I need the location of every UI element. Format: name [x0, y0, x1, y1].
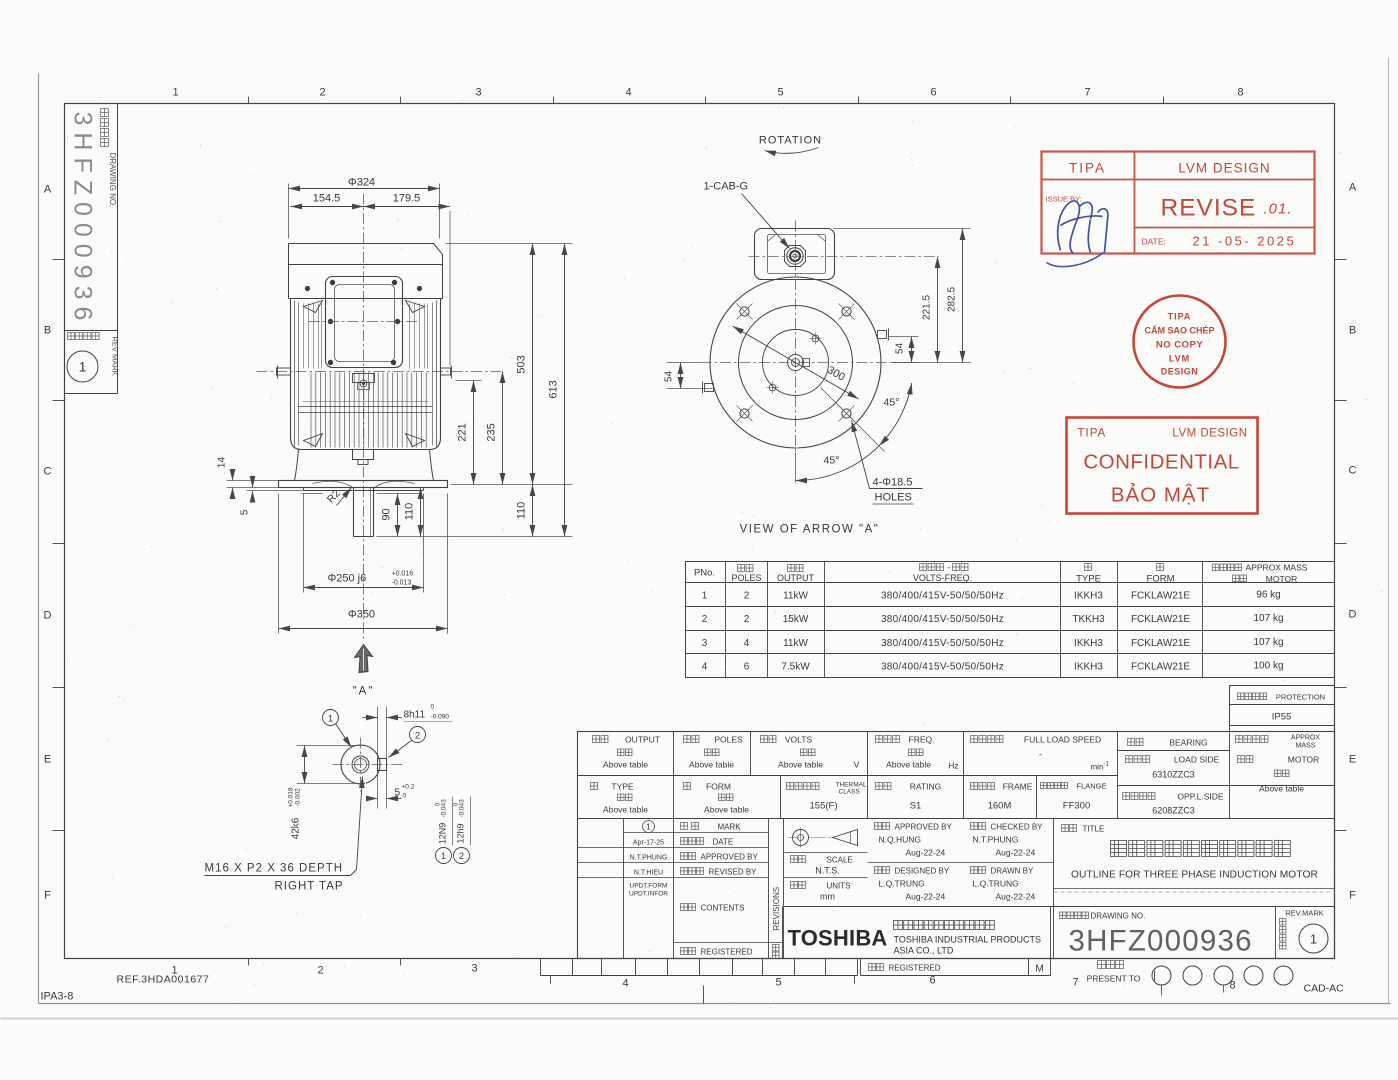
no copy round stamp [1134, 296, 1226, 388]
dim 5 key height [367, 798, 378, 800]
svg-text:NO COPY: NO COPY [1156, 340, 1203, 351]
revise stamp box [1042, 152, 1315, 254]
svg-text:L.Q.TRUNG: L.Q.TRUNG [973, 879, 1019, 889]
svg-text:TIPA: TIPA [1168, 312, 1192, 322]
svg-text:3HFZ000936: 3HFZ000936 [69, 112, 97, 328]
svg-text:3: 3 [475, 87, 481, 99]
flange circle phi350 [710, 277, 881, 448]
svg-text:CAD-AC: CAD-AC [1304, 983, 1345, 995]
svg-text:-: - [948, 563, 951, 573]
svg-text:FREQ.: FREQ. [909, 735, 935, 745]
svg-text:8: 8 [1229, 980, 1235, 992]
svg-text:107 kg: 107 kg [1253, 637, 1283, 648]
flange plate [279, 481, 448, 488]
svg-text:CẤM SAO CHÉP: CẤM SAO CHÉP [1144, 326, 1214, 336]
revision area columns [623, 819, 625, 959]
svg-text:TYPE: TYPE [1076, 574, 1101, 585]
svg-text:PNo.: PNo. [694, 568, 715, 579]
svg-text:F: F [1349, 890, 1356, 902]
dim 5 spigot [247, 490, 304, 492]
lifting lug wedges [304, 301, 323, 313]
svg-text:CLASS: CLASS [839, 789, 861, 796]
svg-text:REVISE: REVISE [1161, 195, 1257, 222]
svg-text:TOSHIBA: TOSHIBA [788, 926, 888, 951]
svg-text:15kW: 15kW [783, 614, 809, 625]
keyway mark [803, 359, 810, 367]
svg-text:1: 1 [441, 851, 446, 861]
rotation arc arrow [765, 148, 819, 154]
svg-text:1: 1 [171, 965, 177, 977]
svg-text:.01.: .01. [1264, 201, 1293, 218]
body side hatch [304, 304, 428, 369]
svg-text:MOTOR: MOTOR [1266, 574, 1297, 584]
svg-text:HOLES: HOLES [875, 492, 912, 504]
rev mark box label [68, 333, 100, 340]
svg-text:FLANGE: FLANGE [1076, 782, 1106, 791]
key detail centerlines [333, 764, 403, 766]
svg-text:Aug-22-24: Aug-22-24 [996, 892, 1036, 902]
dim 54 left [667, 388, 713, 390]
svg-text:Above table: Above table [603, 760, 648, 770]
small balance holes [812, 335, 819, 342]
row2 type cell [591, 783, 598, 790]
svg-text:DESIGN: DESIGN [1161, 367, 1199, 377]
view A terminal box [755, 229, 835, 280]
svg-text:5: 5 [777, 87, 783, 99]
title block outer [578, 732, 1335, 959]
svg-text:6: 6 [929, 975, 935, 987]
4-phi18.5 holes label [852, 421, 923, 489]
svg-text:mm: mm [820, 892, 835, 902]
svg-text:2: 2 [317, 965, 323, 977]
svg-text:Aug-22-24: Aug-22-24 [996, 848, 1036, 858]
svg-text:FCKLAW21E: FCKLAW21E [1131, 662, 1190, 673]
spigot circle phi250 [739, 306, 853, 420]
svg-text:E: E [1349, 754, 1356, 766]
svg-text:4-Φ18.5: 4-Φ18.5 [873, 477, 913, 489]
svg-text:POLES: POLES [714, 735, 743, 745]
svg-text:IP55: IP55 [1272, 712, 1292, 723]
svg-text:TKKH3: TKKH3 [1072, 614, 1105, 625]
svg-text:UNITS: UNITS [827, 882, 851, 891]
checked by cell [971, 823, 986, 830]
body fins [311, 373, 426, 448]
view A right stud [878, 331, 887, 339]
svg-text:DATE:: DATE: [1142, 237, 1166, 247]
svg-text:1: 1 [172, 87, 178, 99]
svg-text:A: A [1349, 182, 1357, 194]
svg-text:11kW: 11kW [783, 638, 808, 649]
svg-text:Φ250 j6: Φ250 j6 [328, 573, 367, 585]
dim phi250 [303, 494, 305, 593]
cable gland [785, 246, 806, 267]
svg-text:-0.043: -0.043 [459, 799, 466, 818]
svg-text:11kW: 11kW [783, 591, 808, 602]
svg-text:CHECKED BY: CHECKED BY [991, 823, 1044, 832]
1-CAB-G leader [742, 194, 790, 249]
fan cover top cap [289, 244, 443, 265]
svg-text:ROTATION: ROTATION [759, 135, 822, 147]
svg-text:90: 90 [381, 508, 393, 520]
svg-text:REV MARK: REV MARK [111, 337, 120, 376]
svg-text:6: 6 [744, 662, 750, 673]
svg-text:2: 2 [702, 614, 708, 625]
svg-text:+0.018: +0.018 [288, 787, 295, 807]
svg-text:54: 54 [895, 343, 906, 355]
svg-text:L.Q.TRUNG: L.Q.TRUNG [879, 879, 925, 889]
svg-text:6208ZZC3: 6208ZZC3 [1152, 806, 1195, 816]
svg-text:F: F [44, 890, 51, 902]
svg-text:2: 2 [744, 614, 750, 625]
drawn by cell [971, 867, 986, 874]
dim 110 right [532, 485, 534, 537]
svg-text:1: 1 [328, 714, 333, 725]
svg-text:LVM DESIGN: LVM DESIGN [1172, 428, 1247, 440]
view A left stud [705, 384, 714, 392]
registered strip [860, 959, 862, 976]
svg-text:VIEW OF ARROW "A": VIEW OF ARROW "A" [740, 524, 880, 536]
IP55 box [1230, 686, 1335, 726]
svg-text:12h9: 12h9 [456, 823, 466, 843]
svg-text:IKKH3: IKKH3 [1074, 662, 1103, 673]
svg-text:107 kg: 107 kg [1253, 613, 1283, 624]
svg-text:96 kg: 96 kg [1256, 590, 1280, 601]
frame grid ticks right [1335, 259, 1347, 261]
svg-text:4: 4 [744, 638, 750, 649]
dim 221 [473, 381, 475, 485]
svg-text:-0.043: -0.043 [441, 799, 448, 818]
svg-text:REGISTERED: REGISTERED [701, 948, 753, 957]
svg-text:LVM: LVM [1169, 354, 1190, 364]
balloon 2 [410, 727, 426, 743]
svg-text:CONFIDENTIAL: CONFIDENTIAL [1083, 451, 1239, 474]
scanner artifact line [1, 1018, 1398, 1020]
svg-text:45°: 45° [824, 455, 840, 467]
svg-text:221.5: 221.5 [922, 295, 933, 320]
revision area rows [624, 832, 769, 834]
svg-text:E: E [44, 754, 51, 766]
svg-text:5: 5 [240, 509, 251, 515]
approx mass cells [1236, 736, 1269, 743]
fan cover band [288, 265, 290, 299]
svg-text:UPDT.INFOR: UPDT.INFOR [629, 891, 668, 898]
svg-text:282.5: 282.5 [947, 287, 958, 312]
svg-text:APPROVED BY: APPROVED BY [895, 823, 953, 832]
drawing number column box [117, 104, 119, 394]
box horizontal centerline [309, 321, 419, 323]
svg-text:221: 221 [457, 423, 469, 441]
svg-text:LVM DESIGN: LVM DESIGN [1178, 161, 1270, 176]
confidential stamp [1067, 418, 1258, 514]
svg-text:1: 1 [702, 591, 708, 602]
svg-text:FCKLAW21E: FCKLAW21E [1131, 591, 1190, 602]
svg-text:4: 4 [625, 87, 631, 99]
key cross-section [378, 759, 387, 771]
centre fold mark [703, 986, 705, 1004]
terminal box bolts [330, 280, 335, 285]
svg-text:THERMAL: THERMAL [836, 782, 867, 789]
svg-text:M16 X P2 X 36 DEPTH: M16 X P2 X 36 DEPTH [205, 863, 344, 875]
svg-text:M: M [1035, 964, 1043, 975]
bearing cells [1128, 739, 1144, 746]
dim 503 [532, 244, 534, 485]
svg-text:VOLTS-FREQ.: VOLTS-FREQ. [913, 573, 972, 583]
terminal box outer [326, 277, 403, 368]
row1 poles cell [684, 736, 700, 743]
scale cell [784, 852, 868, 854]
balloon 1 [323, 710, 339, 726]
bottom center hub [353, 450, 374, 460]
radial line through hole [821, 388, 885, 452]
svg-text:OPP.L.SIDE: OPP.L.SIDE [1177, 792, 1223, 802]
flange holes 4x phi18.5 [740, 307, 749, 316]
row1 volts cell [761, 736, 777, 743]
svg-text:7: 7 [1072, 977, 1078, 989]
svg-text:MARK: MARK [718, 823, 742, 832]
svg-text:REVISIONS: REVISIONS [772, 887, 781, 931]
revision labels [681, 823, 699, 830]
svg-text:6310ZZC3: 6310ZZC3 [1152, 770, 1195, 780]
svg-text:45°: 45° [884, 397, 900, 409]
dim 613 [564, 244, 566, 537]
svg-text:Above table: Above table [603, 805, 648, 815]
svg-text:380/400/415V-50/50/50Hz: 380/400/415V-50/50/50Hz [881, 662, 1004, 673]
svg-text:N.T.HIEU: N.T.HIEU [634, 870, 663, 877]
svg-text:Above table: Above table [704, 805, 749, 815]
row2 flange cell [1041, 783, 1068, 789]
svg-text:V: V [854, 760, 860, 770]
right side stud [441, 368, 451, 375]
svg-text:155(F): 155(F) [810, 801, 838, 812]
title name label [1062, 825, 1077, 832]
svg-text:154.5: 154.5 [313, 193, 341, 205]
svg-text:14: 14 [217, 457, 228, 469]
svg-text:LOAD SIDE: LOAD SIDE [1174, 755, 1220, 765]
row2 frame cell [971, 783, 995, 790]
svg-text:0: 0 [431, 704, 435, 711]
bottom margin strip cells [541, 975, 858, 977]
main title kanji [1111, 841, 1291, 857]
approved by cell [875, 823, 890, 830]
svg-text:+0.016: +0.016 [392, 571, 414, 578]
body rib rails [299, 406, 433, 408]
svg-text:380/400/415V-50/50/50Hz: 380/400/415V-50/50/50Hz [881, 638, 1004, 649]
drawing frame border [65, 104, 1335, 959]
svg-text:380/400/415V-50/50/50Hz: 380/400/415V-50/50/50Hz [881, 614, 1004, 625]
title block column lines [673, 732, 675, 819]
svg-text:"A": "A" [353, 686, 375, 698]
45 deg arcs [879, 383, 912, 446]
svg-text:7: 7 [1084, 87, 1090, 99]
row1 output cell [593, 736, 609, 743]
dim 110 shaft [420, 488, 422, 537]
svg-text:N.Q.HUNG: N.Q.HUNG [879, 835, 922, 845]
svg-text:-0.013: -0.013 [392, 580, 412, 587]
svg-text:1: 1 [1310, 932, 1317, 947]
view A vertical centerline [795, 221, 797, 453]
svg-text:Above table: Above table [689, 760, 734, 770]
terminal box inner [335, 285, 395, 362]
svg-text:613: 613 [548, 380, 560, 398]
svg-text:8h11: 8h11 [404, 710, 426, 721]
svg-text:UPDT.FORM: UPDT.FORM [630, 883, 668, 890]
svg-text:APPROX MASS: APPROX MASS [1246, 563, 1308, 573]
scan page bottom edge [39, 1003, 1391, 1005]
balloon 1 ref [436, 848, 452, 864]
dim 282.5 [834, 228, 971, 230]
svg-text:MASS: MASS [1296, 743, 1316, 750]
svg-text:4: 4 [702, 662, 708, 673]
svg-text:1: 1 [79, 359, 87, 375]
svg-text:2: 2 [459, 851, 464, 861]
svg-text:-0.090: -0.090 [431, 714, 450, 721]
svg-text:VOLTS: VOLTS [785, 735, 813, 745]
main horizontal centerline [257, 371, 503, 373]
frame grid ticks top [248, 97, 250, 104]
toshiba box [782, 907, 784, 959]
view A horizontal centerline [701, 362, 893, 364]
bottom bell sides [295, 450, 299, 481]
inner boss circle [763, 330, 829, 396]
svg-text:FRAME: FRAME [1003, 782, 1033, 792]
svg-text:FORM: FORM [1147, 574, 1175, 585]
svg-text:OUTPUT: OUTPUT [625, 735, 660, 745]
svg-text:DRAWN BY: DRAWN BY [991, 867, 1034, 876]
title block lower lines [1054, 888, 1335, 890]
svg-text:12N9: 12N9 [438, 823, 448, 845]
svg-text:100 kg: 100 kg [1253, 661, 1283, 672]
svg-text:300: 300 [825, 364, 847, 384]
dim 54 right [889, 336, 919, 338]
svg-text:42k6: 42k6 [291, 817, 302, 839]
svg-text:DRAWING NO.: DRAWING NO. [108, 153, 117, 208]
svg-text:TITLE: TITLE [1083, 825, 1105, 834]
svg-text:-: - [1039, 750, 1042, 760]
svg-text:N.T.PHUNG: N.T.PHUNG [973, 835, 1019, 845]
svg-text:N.T.S.: N.T.S. [815, 866, 840, 876]
svg-text:RATING: RATING [910, 782, 941, 792]
svg-text:TOSHIBA INDUSTRIAL PRODUCTS: TOSHIBA INDUSTRIAL PRODUCTS [894, 935, 1042, 945]
svg-text:REF.3HDA001677: REF.3HDA001677 [117, 974, 210, 986]
svg-text:IPA3-8: IPA3-8 [41, 991, 74, 1003]
svg-text:3HFZ000936: 3HFZ000936 [1069, 925, 1253, 958]
svg-text:Aug-22-24: Aug-22-24 [906, 848, 946, 858]
svg-text:TIPA: TIPA [1069, 161, 1106, 176]
svg-text:21 -05- 2025: 21 -05- 2025 [1193, 234, 1297, 249]
svg-text:4: 4 [622, 978, 628, 990]
shaft section circle [341, 745, 380, 784]
svg-text:3: 3 [471, 963, 477, 975]
scan page right edge [1388, 58, 1390, 1004]
body side inner lines [294, 301, 296, 447]
dim 42k6 shaft [297, 745, 362, 747]
svg-text:OUTLINE FOR THREE PHASE INDUCT: OUTLINE FOR THREE PHASE INDUCTION MOTOR [1071, 870, 1318, 881]
rev mark circle 1 [67, 351, 98, 382]
svg-text:Above table: Above table [1259, 784, 1304, 794]
svg-text:IKKH3: IKKH3 [1074, 591, 1103, 602]
svg-text:IKKH3: IKKH3 [1074, 638, 1103, 649]
svg-text:Above table: Above table [886, 760, 931, 770]
svg-text:DATE: DATE [713, 838, 734, 847]
row1 freq cell [876, 736, 900, 743]
svg-text:2: 2 [415, 731, 420, 742]
svg-text:D: D [44, 610, 52, 622]
svg-text:2: 2 [319, 87, 325, 99]
svg-text:Above table: Above table [778, 760, 823, 770]
svg-text:8: 8 [1237, 87, 1243, 99]
svg-text:APPROVED BY: APPROVED BY [701, 853, 759, 862]
tap hole circles [352, 756, 369, 773]
svg-text:503: 503 [516, 355, 528, 373]
svg-text:5: 5 [395, 788, 401, 799]
dim phi350 [278, 494, 280, 634]
row1 full load speed cell [971, 736, 1004, 743]
row2 form cell [684, 783, 691, 790]
tap note leader [351, 777, 363, 876]
motor body outline [291, 299, 441, 450]
dim 14 flange [227, 480, 279, 482]
svg-text:B: B [1349, 325, 1356, 337]
svg-text:1: 1 [646, 823, 651, 832]
svg-text:APPROX: APPROX [1291, 735, 1321, 742]
svg-text:FCKLAW21E: FCKLAW21E [1131, 614, 1190, 625]
scan page left edge [38, 74, 40, 1004]
spec table frame [686, 562, 1335, 678]
shaft circles [788, 355, 804, 371]
dim phi324 [288, 184, 290, 239]
frame grid ticks bottom [248, 959, 250, 966]
svg-text:Φ350: Φ350 [348, 609, 375, 621]
bolt circle diameter 300 line [733, 326, 859, 399]
svg-text:OUTPUT: OUTPUT [777, 573, 815, 583]
svg-text:C: C [44, 466, 52, 478]
svg-text:BẢO MẬT: BẢO MẬT [1111, 484, 1210, 507]
svg-text:2: 2 [744, 591, 750, 602]
row2 rating cell [876, 783, 892, 790]
svg-text:D: D [1349, 609, 1357, 621]
svg-text:7.5kW: 7.5kW [781, 662, 810, 673]
revision entries [643, 821, 655, 833]
svg-text:-1: -1 [1104, 762, 1110, 768]
svg-text:3: 3 [702, 638, 708, 649]
svg-text:235: 235 [486, 423, 498, 441]
shaft [353, 488, 355, 537]
svg-text:+0.2: +0.2 [402, 784, 415, 791]
svg-text:PRESENT TO: PRESENT TO [1087, 974, 1141, 984]
frame grid ticks left [53, 259, 65, 261]
svg-text:TIPA: TIPA [1078, 428, 1107, 440]
svg-text:FORM: FORM [706, 782, 731, 792]
view arrow A icon [355, 645, 373, 673]
svg-text:DRAWING NO.: DRAWING NO. [1091, 912, 1146, 921]
svg-text:Hz: Hz [948, 761, 958, 771]
svg-text:POLES: POLES [731, 573, 761, 583]
svg-text:380/400/415V-50/50/50Hz: 380/400/415V-50/50/50Hz [881, 591, 1004, 602]
flange fillet curves [313, 481, 353, 487]
svg-text:C: C [1349, 465, 1357, 477]
svg-text:160M: 160M [988, 801, 1012, 812]
svg-text:A: A [44, 184, 52, 196]
svg-text:Aug-22-24: Aug-22-24 [906, 892, 946, 902]
svg-text:ASIA CO., LTD: ASIA CO., LTD [894, 946, 954, 956]
right extension lines [446, 243, 573, 245]
svg-text:54: 54 [664, 371, 675, 383]
dim 154.5 / 179.5 [291, 206, 364, 208]
svg-text:-0.002: -0.002 [295, 788, 302, 807]
svg-text:min: min [1091, 763, 1104, 772]
svg-text:Apr-17-25: Apr-17-25 [633, 840, 664, 847]
present to [1098, 961, 1124, 969]
